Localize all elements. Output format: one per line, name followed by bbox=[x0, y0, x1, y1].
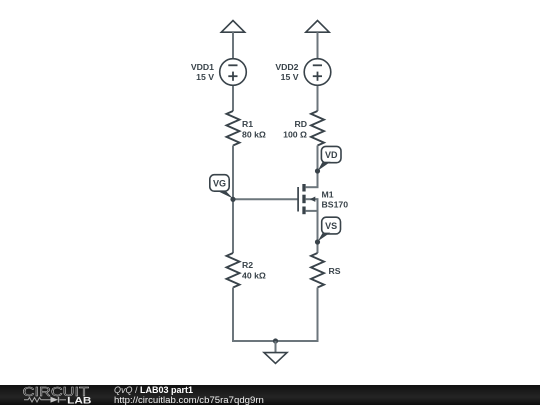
title text QvQ / LAB03 part1 bbox=[114, 385, 193, 395]
svg-text:15 V: 15 V bbox=[196, 72, 214, 82]
label M1 BS170 bbox=[322, 190, 349, 210]
url text bbox=[114, 395, 264, 405]
resistor RD bbox=[311, 111, 324, 146]
label R1 80 kOhm bbox=[242, 119, 266, 140]
resistor R1 bbox=[227, 111, 240, 146]
transistor M1 channel top dash bbox=[302, 184, 305, 192]
resistor R2 bbox=[227, 253, 240, 288]
svg-text:LAB: LAB bbox=[67, 395, 92, 405]
svg-text:15 V: 15 V bbox=[281, 72, 299, 82]
wire VDD2 to RD bbox=[317, 86, 319, 111]
resistor RS bbox=[311, 253, 324, 288]
wire RD to drain bbox=[317, 146, 319, 188]
wire bottom rail bbox=[232, 340, 319, 342]
transistor M1 channel bottom dash bbox=[302, 207, 305, 215]
voltage source VDD2 bbox=[304, 59, 331, 86]
svg-text:40 kΩ: 40 kΩ bbox=[242, 271, 266, 281]
ground bbox=[264, 341, 287, 363]
transistor M1 source lead bbox=[306, 210, 318, 212]
svg-text:VDD2: VDD2 bbox=[275, 62, 298, 72]
transistor M1 drain lead bbox=[306, 186, 319, 188]
footer bar bbox=[0, 385, 540, 405]
voltage source VDD1 bbox=[220, 59, 247, 86]
label RD 100 Ohm bbox=[283, 119, 307, 140]
svg-text:RD: RD bbox=[294, 119, 307, 129]
ground junction dot bbox=[273, 338, 278, 343]
svg-text:R2: R2 bbox=[242, 260, 253, 270]
svg-text:R1: R1 bbox=[242, 119, 253, 129]
svg-text:VD: VD bbox=[325, 150, 338, 160]
node label VD bbox=[318, 146, 341, 170]
CircuitLab logo bbox=[0, 385, 100, 405]
svg-text:RS: RS bbox=[329, 266, 341, 276]
node VS junction dot bbox=[315, 239, 320, 244]
wire R1 to VG node bbox=[232, 146, 234, 254]
power flag VDD1 bbox=[221, 21, 244, 59]
transistor M1 source stub bbox=[317, 198, 319, 213]
transistor M1 body lead with arrow bbox=[306, 197, 318, 202]
svg-text:100 Ω: 100 Ω bbox=[283, 130, 307, 140]
svg-text:VG: VG bbox=[213, 178, 226, 188]
svg-text:80 kΩ: 80 kΩ bbox=[242, 130, 266, 140]
svg-text:VS: VS bbox=[325, 221, 337, 231]
node label VS bbox=[318, 217, 341, 241]
power flag VDD2 bbox=[306, 21, 329, 59]
svg-text:VDD1: VDD1 bbox=[191, 62, 214, 72]
transistor M1 gate bar bbox=[297, 187, 299, 212]
transistor M1 channel middle dash bbox=[302, 195, 305, 204]
node label VG bbox=[210, 175, 233, 199]
label R2 40 kOhm bbox=[242, 260, 266, 281]
svg-text:M1: M1 bbox=[322, 190, 334, 200]
svg-text:BS170: BS170 bbox=[322, 200, 349, 210]
wire RS to rail bbox=[317, 288, 319, 343]
label VDD1 15 V bbox=[191, 62, 214, 82]
node VG junction dot bbox=[230, 197, 235, 202]
wire R2 to rail bbox=[232, 288, 234, 343]
wire gate bbox=[233, 198, 298, 200]
wire VDD1 to R1 bbox=[232, 86, 234, 111]
wire source to RS bbox=[317, 213, 319, 253]
node VD junction dot bbox=[315, 168, 320, 173]
label VDD2 15 V bbox=[275, 62, 298, 82]
